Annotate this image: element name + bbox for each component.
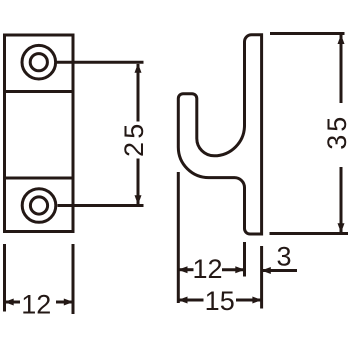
svg-text:12: 12: [192, 254, 222, 284]
plate divider line lower: [3, 177, 75, 180]
leader line from top hole: [57, 61, 144, 64]
arrowhead 15 left: [178, 297, 188, 304]
extension line front-right: [72, 244, 75, 314]
svg-text:15: 15: [205, 286, 235, 316]
front view plate outline: [5, 35, 74, 232]
dimension line 12 front right segment: [56, 301, 73, 304]
bottom screw hole inner circle: [30, 197, 47, 214]
dimension line 12 front left segment: [5, 301, 21, 304]
extension line plate back: [260, 246, 263, 309]
svg-text:12: 12: [21, 290, 51, 320]
extension line plate front face: [243, 242, 246, 277]
arrowhead 25 bottom: [135, 195, 142, 205]
arrowhead 15 right: [252, 297, 262, 304]
dimension line 12 side right segment: [222, 268, 245, 271]
arrowhead 35 top: [338, 35, 345, 45]
dimension line 25 lower segment: [137, 159, 140, 205]
dimension line 15 left segment: [178, 299, 203, 302]
plate divider line upper: [3, 90, 75, 93]
arrowhead 25 top: [135, 63, 142, 72]
svg-text:3: 3: [276, 241, 291, 271]
dimension line 15 right segment: [236, 299, 262, 302]
extension line side top: [270, 32, 345, 35]
svg-text:25: 25: [119, 121, 149, 157]
dimension line 25 upper segment: [137, 64, 140, 122]
extension line side bottom: [270, 232, 349, 235]
arrowhead 12 front right: [64, 299, 74, 306]
arrowhead 35 bottom: [338, 223, 345, 233]
arrowhead 12 side right: [235, 266, 245, 273]
top screw hole inner circle: [30, 54, 47, 71]
bottom screw hole outer circle: [22, 189, 56, 223]
svg-text:35: 35: [322, 114, 350, 150]
arrowhead 3: [261, 267, 271, 274]
leader line from bottom hole: [58, 204, 144, 207]
extension line hook tip: [177, 172, 180, 303]
extension line front-left: [3, 244, 6, 312]
dimension line 35 lower segment: [340, 167, 343, 233]
dimension line 35 upper segment: [340, 35, 343, 103]
dimension line 12 side left segment: [178, 268, 193, 271]
dimension line 3: [262, 269, 297, 272]
side view hook outline: [178, 35, 261, 234]
arrowhead 12 front left: [4, 299, 14, 306]
top screw hole outer circle: [22, 45, 56, 79]
arrowhead 12 side left: [178, 266, 188, 273]
